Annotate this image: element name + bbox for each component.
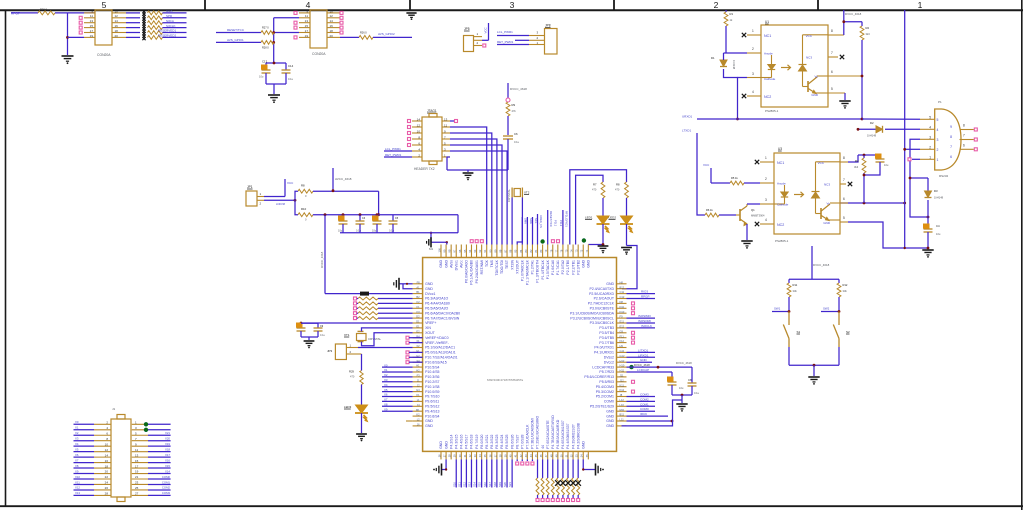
svg-text:12: 12 (330, 14, 334, 18)
svg-text:P10.0/S9: P10.0/S9 (425, 390, 439, 394)
svg-text:A1: A1 (416, 285, 420, 289)
svg-text:S12: S12 (463, 482, 467, 487)
svg-text:4: 4 (752, 90, 754, 94)
svg-text:NC3: NC3 (806, 56, 812, 60)
wire J1 pin 12 (74, 451, 95, 453)
svg-text:TDO/TDI: TDO/TDI (500, 260, 504, 274)
ground (304, 340, 315, 342)
svg-text:X4: X4 (384, 383, 388, 387)
wire (55, 12, 95, 14)
svg-text:R10: R10 (301, 207, 307, 211)
svg-text:X19: X19 (165, 442, 170, 446)
svg-text:X3: X3 (75, 437, 79, 441)
svg-text:GND: GND (439, 441, 443, 449)
svg-text:DVCC_4618: DVCC_4618 (634, 363, 650, 367)
svg-text:CON20A: CON20A (97, 53, 111, 57)
svg-text:R6 1k: R6 1k (706, 208, 713, 212)
svg-text:DVCC_4618: DVCC_4618 (676, 361, 692, 365)
svg-text:HEADER 7X2: HEADER 7X2 (414, 167, 435, 171)
svg-text:3: 3 (937, 138, 939, 142)
capacitor C3 0.1u (359, 213, 362, 216)
no-connect stubs (406, 351, 409, 354)
svg-text:P6.4/A4/OA1B0: P6.4/A4/OA1B0 (425, 302, 450, 306)
net label LCDCAP (627, 371, 673, 373)
svg-text:7: 7 (950, 145, 952, 149)
svg-text:P1.3/TBOUTH: P1.3/TBOUTH (536, 260, 540, 283)
U3 pin 6 Vo (840, 202, 905, 204)
ground MCU bottom left (442, 459, 446, 469)
svg-text:C11: C11 (620, 290, 625, 294)
svg-text:20: 20 (105, 470, 109, 474)
svg-text:P3.3/UCB0CLK: P3.3/UCB0CLK (590, 321, 615, 325)
svg-text:26: 26 (105, 486, 109, 490)
wire (406, 420, 413, 422)
svg-text:P10.2/S7: P10.2/S7 (425, 380, 439, 384)
svg-text:P4.5/S17: P4.5/S17 (465, 434, 469, 448)
svg-text:SPD: SPD (166, 14, 173, 18)
ground (922, 249, 933, 251)
svg-text:R8: R8 (301, 184, 305, 188)
svg-text:10u: 10u (884, 163, 889, 167)
wire J1 pin 13 (132, 456, 148, 458)
U1 pin 7 NC3 (828, 56, 838, 58)
svg-text:VCC: VCC (703, 163, 710, 167)
wire (447, 169, 508, 171)
no-connect pink square (483, 44, 486, 47)
wire J1 pin 16 (74, 462, 95, 464)
svg-text:X9: X9 (75, 469, 79, 473)
resistor R11 33k (788, 279, 790, 283)
wire J1 pin 8 (74, 440, 95, 442)
wire DB9 pin3 (910, 139, 928, 217)
svg-text:S10: S10 (452, 482, 456, 487)
svg-text:B2: B2 (416, 295, 420, 299)
ground (676, 403, 687, 405)
svg-text:P3.4/TB3: P3.4/TB3 (599, 326, 614, 330)
capacitor C12 10u (266, 62, 274, 64)
svg-text:GND: GND (425, 282, 433, 286)
svg-text:S14: S14 (473, 482, 477, 487)
no-connect (632, 341, 635, 344)
svg-text:AVS_GPIO2: AVS_GPIO2 (378, 32, 395, 36)
svg-text:P8.6/S26: P8.6/S26 (510, 434, 514, 448)
svg-text:C2: C2 (416, 300, 420, 304)
svg-text:S11: S11 (457, 482, 461, 487)
svg-text:S3CA: S3CA (166, 19, 174, 23)
svg-text:E11: E11 (620, 320, 625, 324)
wire J1 pin 26 (74, 489, 95, 491)
svg-text:47k: 47k (512, 109, 517, 113)
svg-text:P1.1/TA0/MCLK: P1.1/TA0/MCLK (526, 259, 530, 285)
svg-text:14: 14 (417, 117, 421, 121)
svg-text:GND: GND (606, 419, 614, 423)
svg-text:GND: GND (587, 260, 591, 268)
svg-text:COM2: COM2 (162, 486, 171, 490)
U1 pin 3 Cathode (747, 77, 761, 79)
svg-text:D2: D2 (416, 315, 420, 319)
ground (356, 433, 367, 435)
wire (274, 17, 299, 19)
svg-text:X7: X7 (384, 398, 388, 402)
wire (672, 394, 692, 396)
svg-text:H8: H8 (620, 280, 624, 284)
svg-text:JP3: JP3 (327, 349, 333, 353)
svg-text:1: 1 (937, 158, 939, 162)
net label ISOSOMI (627, 322, 656, 324)
capacitor C4 10u (376, 213, 379, 216)
svg-text:P4.1/URXD1: P4.1/URXD1 (594, 351, 614, 355)
svg-text:16: 16 (115, 24, 119, 28)
power net DVCC_4618 vertical (324, 215, 326, 294)
U3 pin 2 Anode (760, 182, 774, 184)
svg-text:10: 10 (330, 9, 334, 13)
svg-text:DVCC_4618: DVCC_4618 (845, 12, 862, 16)
svg-text:LCL_PWR1: LCL_PWR1 (497, 30, 513, 34)
wire GND rows to ground (627, 420, 673, 422)
svg-text:25: 25 (135, 486, 139, 490)
svg-text:X1: X1 (75, 426, 79, 430)
svg-text:44: 44 (541, 445, 545, 449)
no-connect DB9 pin1 (912, 158, 920, 160)
svg-text:P8.1/S21: P8.1/S21 (485, 434, 489, 448)
U3 pin 4 NC2 (760, 223, 774, 225)
svg-text:Cathode: Cathode (764, 77, 776, 81)
no-connect (632, 336, 635, 339)
svg-text:UREA_FS: UREA_FS (539, 215, 543, 228)
svg-text:RET_PWR1: RET_PWR1 (385, 153, 402, 157)
svg-text:VCC: VCC (818, 161, 825, 165)
svg-text:LED2: LED2 (609, 216, 617, 220)
wire (789, 364, 839, 366)
resistor R25 (148, 31, 163, 35)
svg-text:RET_PWR1: RET_PWR1 (497, 40, 514, 44)
svg-text:E1: E1 (416, 325, 420, 329)
svg-text:P5.0/S1/A13/OA1I1: P5.0/S1/A13/OA1I1 (425, 351, 456, 355)
svg-text:2: 2 (752, 47, 754, 51)
svg-text:CCA: CCA (166, 9, 172, 13)
svg-text:DVcc1: DVcc1 (425, 292, 435, 296)
svg-text:4: 4 (929, 125, 931, 129)
svg-text:6: 6 (963, 143, 965, 147)
svg-text:G4: G4 (416, 388, 420, 392)
wire XIN (362, 328, 413, 332)
svg-text:12: 12 (105, 448, 109, 452)
svg-text:19: 19 (90, 34, 94, 38)
svg-text:P8.5/S25: P8.5/S25 (505, 434, 509, 448)
U3 pin 5 GND (840, 221, 848, 223)
svg-text:0.1u: 0.1u (514, 140, 520, 144)
svg-text:X16: X16 (165, 458, 170, 462)
wire J1 pin 5 (132, 434, 148, 436)
svg-text:P1.5/TACLK: P1.5/TACLK (546, 259, 550, 279)
svg-text:J12: J12 (620, 378, 625, 382)
svg-text:GND: GND (581, 441, 585, 449)
svg-text:X0: X0 (75, 420, 79, 424)
svg-text:U1: U1 (765, 20, 769, 24)
svg-text:23: 23 (135, 481, 139, 485)
resistor R13 (354, 302, 357, 305)
ground (467, 170, 469, 172)
svg-text:J11: J11 (620, 374, 625, 378)
svg-text:P2.3/TB2: P2.3/TB2 (576, 260, 580, 275)
wire J1 pin 21 (132, 478, 148, 480)
svg-text:COM0: COM0 (162, 475, 171, 479)
resistor R4 3k3 (858, 154, 880, 156)
svg-text:S3CLK: S3CLK (166, 24, 176, 28)
svg-text:GND: GND (581, 260, 585, 268)
svg-text:1N4148: 1N4148 (934, 196, 944, 200)
svg-text:RFD_GPIO1: RFD_GPIO1 (564, 211, 568, 227)
svg-text:Anode: Anode (764, 52, 773, 56)
svg-text:X3: X3 (384, 378, 388, 382)
net label RIO3 (627, 293, 656, 295)
ground (602, 243, 605, 246)
net stubs X0-X9 (382, 366, 413, 368)
svg-text:S2: S2 (846, 330, 850, 334)
svg-text:13: 13 (444, 117, 448, 121)
U3 pin 8 VCC (840, 161, 848, 163)
wire J1 pin 14 (74, 456, 95, 458)
svg-text:R9: R9 (512, 103, 516, 107)
resistor R29 470 to LED3 (361, 354, 363, 371)
svg-text:P4.7B3/UCA0TXRXD: P4.7B3/UCA0TXRXD (551, 415, 555, 449)
resistor R1 1k (725, 10, 727, 12)
svg-text:AVss: AVss (449, 260, 453, 268)
svg-text:P10.6/S4: P10.6/S4 (425, 414, 439, 418)
svg-text:P4.5B3/UCA0RXD: P4.5B3/UCA0RXD (556, 419, 560, 449)
svg-text:M1: M1 (416, 408, 420, 412)
svg-text:P5.1/S0/A12/DAC1: P5.1/S0/A12/DAC1 (425, 346, 455, 350)
resistor R12 (354, 297, 357, 300)
svg-text:H2: H2 (416, 369, 420, 373)
svg-text:GND: GND (425, 419, 433, 423)
svg-text:PS2805-1: PS2805-1 (775, 239, 789, 243)
wire (588, 244, 603, 246)
wire (67, 13, 69, 55)
svg-text:19: 19 (135, 470, 139, 474)
svg-text:C12: C12 (620, 295, 625, 299)
svg-text:P4.3S0M31S3?: P4.3S0M31S3? (571, 424, 575, 449)
svg-text:TDI/TCLK: TDI/TCLK (495, 259, 499, 275)
svg-text:14: 14 (105, 453, 109, 457)
svg-text:K2: K2 (416, 413, 420, 417)
wire J1 pin 24 (74, 483, 95, 485)
no-connect X mark (142, 25, 145, 28)
svg-text:16: 16 (105, 459, 109, 463)
svg-text:AVCC_4618: AVCC_4618 (335, 177, 352, 181)
net stubs with vertical labels top (521, 217, 523, 245)
svg-text:17: 17 (305, 29, 309, 33)
svg-text:18: 18 (105, 464, 109, 468)
resistor R24 (148, 26, 163, 30)
svg-text:URXD1: URXD1 (682, 115, 693, 119)
svg-text:Cathode: Cathode (777, 203, 789, 207)
svg-text:1N4148: 1N4148 (732, 60, 736, 70)
ground MCU bottom right (583, 459, 595, 469)
wire DVcc1 to DVCC_4618 rail (325, 293, 413, 295)
ground (839, 100, 850, 102)
ground (741, 240, 752, 242)
svg-text:GND: GND (606, 282, 614, 286)
wire U1 input return (724, 69, 738, 119)
svg-text:G12: G12 (620, 354, 625, 358)
wire J1 pin 27 (132, 494, 148, 496)
no-connect pin 13 (455, 120, 458, 123)
resistor R27 (261, 31, 274, 35)
svg-text:P10.3/S6: P10.3/S6 (425, 375, 439, 379)
svg-text:L10: L10 (620, 403, 625, 407)
wire J1 pin 3 (132, 429, 148, 431)
svg-text:PD.1: PD.1 (554, 220, 558, 227)
svg-text:XOUT: XOUT (425, 331, 436, 335)
resistor R5 (730, 181, 744, 185)
no-connect pink squares top 2 (551, 240, 554, 243)
svg-text:CON20A: CON20A (312, 52, 326, 56)
wire J1 pin 20 (74, 473, 95, 475)
wire J1 pin 22 (74, 478, 95, 480)
svg-text:P7.2SB1/UCA0SIMO: P7.2SB1/UCA0SIMO (536, 416, 540, 449)
U1 pin 5 GND (828, 92, 845, 94)
resistor R23 (148, 21, 163, 25)
capacitor C5 0.1u (392, 215, 394, 221)
svg-text:20: 20 (330, 34, 334, 38)
svg-text:5: 5 (843, 216, 845, 220)
svg-text:10u: 10u (372, 230, 377, 233)
wire from top border to ground rail (904, 10, 906, 248)
svg-text:X10: X10 (75, 475, 80, 479)
svg-text:2: 2 (714, 0, 719, 10)
svg-text:LTXD1: LTXD1 (682, 129, 691, 133)
svg-text:VeREF+/DAC0: VeREF+/DAC0 (425, 336, 448, 340)
resistor R22 (148, 16, 163, 20)
svg-text:P10.6/S3/A15: P10.6/S3/A15 (425, 360, 447, 364)
svg-text:P7.3/UCA0CLK: P7.3/UCA0CLK (526, 424, 530, 449)
wire (622, 246, 637, 289)
svg-text:P3.5/TB4: P3.5/TB4 (599, 331, 614, 335)
svg-text:P8.2/S22: P8.2/S22 (490, 434, 494, 448)
svg-text:M1: M1 (429, 247, 433, 251)
svg-text:COM0: COM0 (640, 407, 649, 411)
resistor R20 (38, 11, 55, 15)
svg-text:DVss2: DVss2 (604, 356, 614, 360)
U1 pin 1 NC1 (747, 34, 761, 36)
svg-text:P2.0/TA2: P2.0/TA2 (561, 260, 565, 274)
svg-text:P6.0/A0/OA0O: P6.0/A0/OA0O (465, 260, 469, 283)
no-connect X mark (142, 30, 145, 33)
svg-text:2: 2 (937, 148, 939, 152)
pulldown resistor bank (537, 459, 539, 478)
svg-text:COM2: COM2 (640, 397, 649, 401)
svg-text:P10.5/S4: P10.5/S4 (425, 365, 439, 369)
svg-text:R7: R7 (593, 183, 597, 187)
node green dot (582, 239, 586, 243)
svg-text:3k3: 3k3 (866, 32, 871, 36)
resistor R12 33k (838, 279, 840, 283)
svg-text:X1: X1 (384, 368, 388, 372)
svg-text:XT2: XT2 (524, 191, 530, 195)
svg-text:0.1u: 0.1u (694, 391, 700, 395)
svg-text:XT1: XT1 (344, 333, 350, 337)
svg-text:NC2: NC2 (777, 223, 784, 227)
power net DVCC_4618 (811, 246, 813, 279)
svg-text:NC1: NC1 (764, 34, 771, 38)
svg-text:JP5: JP5 (464, 27, 470, 31)
svg-text:1: 1 (918, 0, 923, 10)
svg-text:S20: S20 (503, 482, 507, 487)
svg-text:M11: M11 (620, 408, 625, 412)
U1 pin 2 Anode (747, 52, 761, 54)
svg-text:D11: D11 (620, 305, 625, 309)
svg-text:C14: C14 (288, 64, 294, 68)
svg-text:20: 20 (115, 34, 119, 38)
sheet border frame (0, 9, 1023, 11)
svg-text:K1: K1 (416, 393, 420, 397)
svg-text:470: 470 (592, 188, 597, 192)
U3 pin 7 NC3 (840, 183, 846, 185)
svg-text:8: 8 (843, 156, 845, 160)
svg-text:470: 470 (350, 375, 355, 379)
svg-text:DVCC_4618: DVCC_4618 (813, 263, 830, 267)
svg-text:Vo: Vo (814, 75, 818, 79)
svg-text:6: 6 (950, 155, 952, 159)
svg-text:P10.1/S8: P10.1/S8 (425, 385, 439, 389)
no-connect VeREF+ (406, 336, 409, 339)
svg-text:H9: H9 (620, 344, 624, 348)
svg-text:F11: F11 (620, 334, 625, 338)
svg-text:8: 8 (950, 135, 952, 139)
svg-text:9: 9 (950, 125, 952, 129)
no-connect X mark (142, 20, 145, 23)
svg-text:D13: D13 (620, 310, 625, 314)
microcontroller M1 MSP430F47197 body (423, 258, 617, 452)
svg-text:PS2805-1: PS2805-1 (765, 109, 779, 113)
svg-text:G11: G11 (620, 349, 625, 353)
transistor Q1 MMBT3904 (739, 209, 741, 221)
wire DB9 pin2 (905, 148, 920, 150)
svg-text:X14: X14 (165, 469, 170, 473)
svg-text:DVCC_4618: DVCC_4618 (320, 251, 324, 268)
svg-text:X8: X8 (384, 403, 388, 407)
no-connect X mark (142, 15, 145, 18)
svg-text:C3: C3 (416, 310, 420, 314)
svg-text:GND: GND (439, 260, 443, 268)
svg-text:R12: R12 (843, 283, 848, 287)
svg-text:SW2: SW2 (823, 307, 830, 311)
svg-text:1: 1 (752, 29, 754, 33)
no-connect X mark (142, 10, 145, 13)
svg-text:DVcc2: DVcc2 (604, 360, 614, 364)
svg-text:R20 0: R20 0 (40, 7, 47, 11)
wire (301, 336, 318, 338)
svg-text:P4.0/UTXD1: P4.0/UTXD1 (594, 346, 614, 350)
svg-text:P8.4/S24: P8.4/S24 (500, 434, 504, 448)
svg-text:P5.3/COM2: P5.3/COM2 (596, 390, 614, 394)
svg-text:RIO3: RIO3 (641, 290, 648, 294)
svg-text:16: 16 (330, 24, 334, 28)
resistor R8 470 (625, 182, 629, 198)
svg-text:VCC: VCC (287, 181, 294, 185)
svg-text:J1: J1 (112, 407, 116, 411)
svg-text:D1: D1 (711, 56, 715, 60)
svg-text:P8.3/S23: P8.3/S23 (495, 434, 499, 448)
resistor R21 (148, 11, 163, 15)
no-connect X mark (142, 35, 145, 38)
net label IRCK (627, 415, 669, 417)
no-connect VREF- (406, 341, 409, 344)
no-connect (632, 380, 635, 383)
svg-text:15: 15 (90, 24, 94, 28)
svg-text:RESERVED1: RESERVED1 (158, 29, 176, 33)
